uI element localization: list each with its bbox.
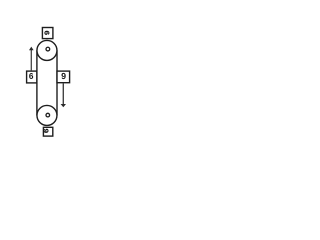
top pulley bbox=[37, 40, 57, 60]
down arrow head bbox=[61, 104, 66, 107]
right box bbox=[57, 71, 70, 83]
bottom pulley axle dot bbox=[46, 113, 50, 117]
left box digit 6 bbox=[29, 73, 33, 79]
up arrow shaft bbox=[30, 50, 32, 71]
belt left side bbox=[36, 50, 38, 115]
bottom pulley bbox=[37, 105, 57, 125]
top box digit 6 rotated 90cw bbox=[45, 31, 50, 35]
left box bbox=[27, 71, 37, 83]
bottom box bbox=[43, 127, 52, 136]
down arrow shaft bbox=[62, 83, 64, 104]
up arrow head bbox=[29, 47, 34, 51]
right box digit 9 bbox=[61, 73, 65, 79]
top pulley axle dot bbox=[46, 47, 50, 51]
top box bbox=[42, 28, 53, 39]
belt right side bbox=[56, 50, 58, 115]
bottom box digit 6 rotated 90ccw bbox=[44, 129, 49, 133]
